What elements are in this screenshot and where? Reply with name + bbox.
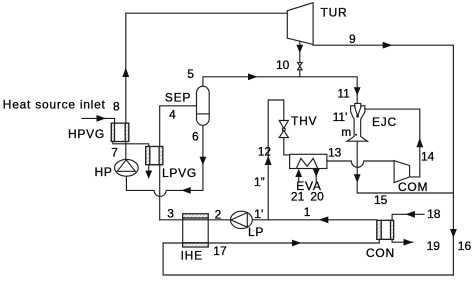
svg-text:14: 14 (421, 150, 435, 164)
wire: TUR bottom bleed to valve 10 (299, 41, 301, 77)
wire: SEP line 4 into LPVG (160, 106, 197, 147)
wire: COM discharge line 14 up to EJC suction (410, 109, 420, 177)
svg-text:21: 21 (291, 190, 305, 204)
svg-text:7: 7 (111, 145, 118, 159)
arrow: leftward on line 1 toward junction (319, 216, 329, 223)
turbine TUR (287, 3, 313, 45)
svg-text:HP: HP (95, 165, 113, 179)
arrow: upward on TUR feed riser (122, 68, 129, 78)
arrow: downward into valve 10 (296, 45, 303, 53)
pump LP (circle with left-pointing triangle) (231, 211, 253, 228)
svg-text:4: 4 (169, 107, 176, 121)
compressor COM (trapezoid, wide left) (394, 161, 410, 183)
svg-text:18: 18 (427, 207, 441, 221)
svg-text:12: 12 (258, 145, 272, 159)
svg-text:9: 9 (349, 32, 356, 46)
svg-text:HPVG: HPVG (68, 127, 105, 141)
wire: SEP vapour line 5 across to EJC motive drop (stream 11) (203, 77, 357, 103)
arrow: upward on riser 12 (265, 156, 272, 166)
svg-text:THV: THV (291, 114, 317, 128)
svg-text:TUR: TUR (321, 6, 348, 20)
arrow: downward on line 11 into EJC (354, 87, 361, 96)
wire: TUR exhaust line 9 to right edge and down (stream 16 vertical) (313, 45, 453, 275)
wire: HP pump suction run with hop over LPVG downcomer (126, 176, 202, 196)
condenser CON (box with hatched side bands) (377, 220, 394, 239)
wire: heat source outlet below LPVG (148, 165, 150, 171)
ejector EJC body (347, 106, 367, 141)
svg-text:3: 3 (167, 207, 174, 221)
wire: EVA chilled stream outlet 20 (315, 169, 317, 182)
wire: THV outlet into EVA (284, 138, 290, 155)
svg-text:1': 1' (254, 207, 263, 221)
svg-text:8: 8 (113, 100, 120, 114)
svg-text:SEP: SEP (165, 90, 191, 104)
wire: LPVG liquid downcomer to line 3 (159, 165, 161, 220)
arrow: heat source out downward (145, 171, 152, 180)
valve 10 (small two-triangle valve) (298, 63, 303, 67)
svg-text:LP: LP (248, 225, 264, 239)
svg-text:1”: 1” (254, 175, 265, 189)
wire: EJC suction line from right side (365, 108, 420, 110)
wire: HPVG to TUR feed line (stream 8 riser and top run) (126, 13, 287, 159)
svg-text:5: 5 (187, 67, 194, 81)
wire: cooling water inlet 18 (392, 214, 424, 220)
svg-text:6: 6 (192, 130, 199, 144)
arrow: leftward on line 18 (405, 211, 415, 218)
svg-text:1: 1 (304, 205, 311, 219)
wire: main condensate line 3-2-1'-1 from LPVG corner to CON (160, 219, 377, 221)
svg-text:15: 15 (374, 193, 388, 207)
valve THV (two triangles with small circle) (279, 121, 288, 129)
arrow: rightward on line 5 (248, 73, 258, 80)
wire: EJC diffuser outlet down to line 15 (356, 141, 358, 193)
arrow: downward on line 16 (450, 229, 457, 238)
svg-text:11: 11 (337, 86, 350, 100)
arrow: rightward on line 17 (292, 240, 302, 247)
svg-text:11': 11' (333, 110, 348, 124)
arrow: downward on line 6 (200, 157, 207, 166)
arrow: downward on EJC outlet (354, 174, 361, 183)
svg-text:19: 19 (427, 239, 441, 253)
wire: bottom return run and riser to line 17 (163, 243, 453, 275)
svg-text:COM: COM (398, 180, 428, 194)
arrow: rightward on line 19 (404, 239, 414, 246)
evaporator EVA (box with zigzag coil) (290, 154, 327, 168)
heat source inlet arrow and label (82, 118, 115, 123)
svg-text:EJC: EJC (372, 115, 397, 129)
svg-text:20: 20 (310, 190, 324, 204)
svg-text:17: 17 (213, 244, 227, 258)
arrow: leftward toward HP pump (181, 187, 191, 194)
wire: EVA chilled stream inlet 21 (298, 170, 300, 181)
svg-text:m: m (341, 125, 351, 139)
heat exchanger HPVG (box with hatched side bands) (111, 123, 129, 141)
svg-text:LPVG: LPVG (162, 166, 197, 180)
ejector EJC nozzle (355, 103, 361, 115)
svg-text:16: 16 (458, 239, 472, 253)
wire: line 15 to right edge (357, 192, 453, 194)
svg-text:Heat source inlet: Heat source inlet (3, 97, 106, 111)
svg-text:IHE: IHE (181, 248, 203, 262)
wire: SEP liquid line 6 down to HP pump suction (202, 125, 204, 190)
svg-text:CON: CON (366, 246, 395, 260)
wire: cooling water outlet 19 (392, 239, 413, 242)
heat exchanger LPVG (box with hatched side bands) (146, 147, 163, 165)
heat exchanger IHE (box with hatched top/bottom bands) (183, 214, 209, 247)
separator SEP (vertical capsule with level line) (197, 86, 210, 125)
wire: riser 1" / 12 up from junction to THV branch (268, 100, 284, 220)
wire: line 13 from EVA to COM with hop under EJC outlet (327, 161, 394, 167)
pump HP (circle with upward triangle) (115, 159, 139, 176)
wire: line 17 through IHE to CON (163, 239, 379, 243)
arrow: rightward on line 9 (383, 42, 393, 49)
arrow: upward on line 14 (416, 138, 423, 148)
wire: heat source from HPVG bottom to LPVG top (113, 142, 149, 147)
svg-text:13: 13 (328, 146, 342, 160)
svg-text:2: 2 (215, 207, 222, 221)
svg-text:10: 10 (276, 58, 290, 72)
